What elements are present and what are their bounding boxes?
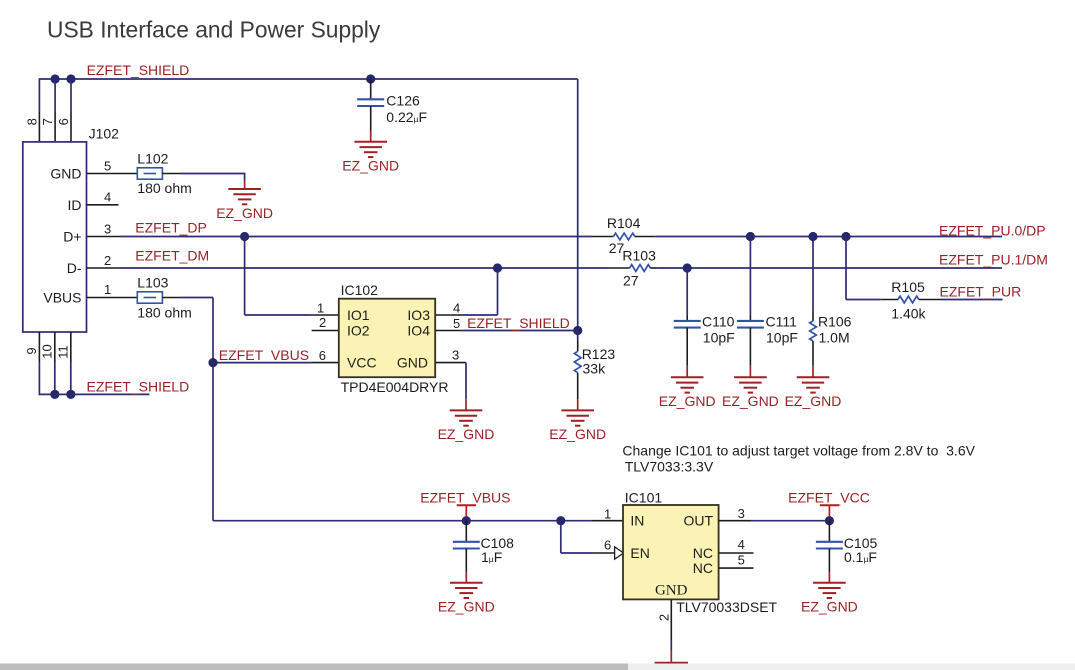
capacitor C108 [453, 521, 480, 549]
svg-text:EZ_GND: EZ_GND [342, 158, 399, 174]
svg-text:EZ_GND: EZ_GND [659, 393, 716, 409]
ground stem (IC102) [465, 399, 467, 410]
svg-text:C111: C111 [766, 314, 798, 330]
pin 5 stub (IC102 IO4) [435, 330, 462, 332]
svg-text:IN: IN [630, 513, 644, 529]
wire C110 down [686, 268, 688, 314]
ground EZ_GND (C110) [659, 377, 716, 409]
wire VBUS to vertical [162, 297, 180, 299]
svg-text:ID: ID [68, 197, 82, 213]
junction IO3 on D- [493, 263, 502, 272]
svg-text:3: 3 [738, 506, 745, 521]
pin 5 stub (J102 GND) [87, 173, 138, 175]
svg-text:IO1: IO1 [347, 307, 370, 323]
pin 4 stub (IC101 NC) [719, 552, 754, 554]
inductor L103 [137, 292, 162, 303]
connector J102 body [23, 142, 87, 332]
wire EZFET_VBUS vertical [212, 298, 214, 521]
junction C111 on D+ [746, 232, 755, 241]
wire R106 down [812, 237, 814, 311]
junction C108 / power port [462, 516, 471, 525]
svg-text:EZFET_SHIELD: EZFET_SHIELD [467, 315, 570, 331]
junction R106 on D+ [808, 232, 817, 241]
inductor L102 [137, 168, 162, 179]
ground EZ_GND (R106) [785, 377, 842, 409]
ground stem (C111) [749, 366, 751, 378]
svg-text:TLV70033DSET: TLV70033DSET [676, 599, 777, 615]
power port EZFET_VCC [788, 490, 870, 517]
svg-text:10pF: 10pF [766, 330, 798, 346]
svg-text:33k: 33k [583, 361, 607, 377]
svg-text:Change IC101 to adjust target: Change IC101 to adjust target voltage fr… [622, 443, 975, 459]
ground stem (R106) [812, 366, 814, 378]
svg-text:10pF: 10pF [703, 330, 735, 346]
wire IO4 to shield vertical [462, 330, 577, 332]
capacitor C111 [737, 314, 764, 366]
svg-text:6: 6 [56, 118, 71, 125]
svg-text:TLV7033:3.3V: TLV7033:3.3V [625, 459, 714, 475]
pin 2 stub (J102 D-) [87, 267, 121, 269]
wire EZFET_VBUS to IC102 pin 6 [213, 362, 312, 364]
svg-text:0.1µF: 0.1µF [844, 549, 877, 565]
svg-text:EZ_GND: EZ_GND [549, 426, 606, 442]
svg-text:EZFET_SHIELD: EZFET_SHIELD [87, 378, 190, 394]
svg-text:D-: D- [67, 260, 82, 276]
svg-text:6: 6 [604, 538, 611, 553]
ground stem (C126) [370, 131, 372, 142]
svg-text:2: 2 [657, 614, 672, 621]
wire EN branch [560, 521, 562, 553]
svg-text:6: 6 [319, 348, 326, 363]
wire J102 pin 11 vertical [70, 332, 72, 362]
svg-text:VCC: VCC [347, 355, 377, 371]
power port EZFET_VBUS [420, 490, 510, 517]
ground EZ_GND (C126) [342, 142, 399, 174]
wire J102 pin 7 vertical [54, 79, 56, 112]
svg-text:7: 7 [40, 118, 55, 125]
svg-text:1.40k: 1.40k [891, 305, 926, 321]
junction D+ to IC102 [240, 232, 249, 241]
wire D+ branch down to IC102 pin 1 [244, 237, 246, 316]
resistor R106 [810, 321, 817, 366]
page-edge gray bar left [0, 664, 628, 670]
junction C126 on shield wire [366, 74, 375, 83]
pin 5 stub (IC101 NC) [719, 567, 754, 569]
pin 1 stub (J102 VBUS) [87, 297, 138, 299]
wire EZFET_PUR [941, 299, 1003, 301]
junction EZFET_VBUS to IC102 VCC [208, 358, 217, 367]
svg-text:8: 8 [24, 118, 39, 125]
ground stem (R123) [577, 399, 579, 410]
svg-text:C126: C126 [386, 93, 420, 109]
junction C105 / power port VCC [825, 516, 834, 525]
svg-text:R103: R103 [622, 248, 656, 264]
svg-text:180 ohm: 180 ohm [137, 180, 191, 196]
junction at pin 11 [66, 390, 75, 399]
ground EZ_GND (R123) [549, 410, 606, 442]
wire L102 to ground [162, 173, 180, 175]
svg-text:R105: R105 [891, 279, 925, 295]
ground EZ_GND (C108) [438, 583, 495, 615]
wire J102 pin 10 vertical [54, 332, 56, 362]
svg-text:EZFET_PU.0/DP: EZFET_PU.0/DP [939, 222, 1046, 238]
ground stem (C108) [465, 572, 467, 583]
svg-text:IC102: IC102 [341, 282, 379, 298]
pin 3 stub (IC101 OUT) [719, 520, 751, 522]
svg-text:5: 5 [104, 159, 111, 174]
svg-text:EZ_GND: EZ_GND [801, 599, 858, 615]
pin 6 stub + enable triangle (IC101 EN) [594, 547, 624, 559]
pin 4 stub (J102 ID, unconnected) [87, 204, 119, 206]
svg-text:NC: NC [693, 560, 713, 576]
svg-text:EZ_GND: EZ_GND [722, 393, 779, 409]
svg-text:TPD4E004DRYR: TPD4E004DRYR [341, 379, 449, 395]
ground EZ_GND (C105) [801, 583, 858, 615]
svg-text:NC: NC [693, 545, 713, 561]
svg-text:USB Interface and Power Supply: USB Interface and Power Supply [47, 17, 381, 43]
wire shield to R123 [577, 331, 579, 341]
svg-text:EZFET_PU.1/DM: EZFET_PU.1/DM [939, 252, 1048, 268]
svg-text:L103: L103 [137, 275, 168, 291]
resistor R104 [593, 233, 656, 240]
wire C111 down (crosses D-) [749, 237, 751, 315]
ground stem (IC101 pin 2) [670, 651, 672, 663]
svg-text:2: 2 [319, 315, 326, 330]
svg-text:D+: D+ [63, 229, 81, 245]
ground stem (C105) [828, 572, 830, 583]
svg-text:EZFET_DP: EZFET_DP [135, 220, 207, 236]
svg-text:1: 1 [604, 507, 611, 522]
svg-text:4: 4 [738, 537, 745, 552]
junction on shield wire at pin 6 [66, 74, 75, 83]
junction on shield wire at pin 7 [51, 74, 60, 83]
wire EZFET_SHIELD bottom horizontal [39, 393, 149, 395]
wire EZFET_DP / EZFET_PU.0/DP horizontal [120, 236, 593, 238]
svg-text:5: 5 [453, 316, 460, 331]
svg-text:L102: L102 [137, 151, 168, 167]
svg-text:0.22µF: 0.22µF [386, 109, 427, 125]
svg-text:EZFET_VBUS: EZFET_VBUS [219, 347, 309, 363]
svg-text:EZ_GND: EZ_GND [785, 393, 842, 409]
svg-text:EZFET_PUR: EZFET_PUR [940, 283, 1022, 299]
svg-text:GND: GND [397, 355, 428, 371]
wire EZFET_SHIELD right vertical [577, 79, 579, 331]
junction shield at R123 [573, 326, 582, 335]
wire IC102 GND down [465, 363, 467, 400]
pin 1 stub (IC102 IO1) [312, 314, 339, 316]
wire J102 pin 8 vertical [38, 78, 40, 112]
resistor R105 [881, 296, 941, 303]
pin 2 wire (IC101 GND down) [670, 599, 672, 640]
svg-text:C110: C110 [702, 314, 735, 330]
svg-text:180 ohm: 180 ohm [137, 304, 191, 320]
pin 3 stub (J102 D+) [87, 236, 121, 238]
svg-text:4: 4 [104, 190, 111, 205]
svg-text:VBUS: VBUS [43, 290, 81, 306]
svg-text:R106: R106 [818, 314, 852, 330]
ground bar (IC101, clipped) [655, 662, 688, 664]
svg-text:EZFET_SHIELD: EZFET_SHIELD [87, 62, 190, 78]
svg-text:EZFET_VCC: EZFET_VCC [788, 490, 870, 506]
capacitor C105 [816, 521, 843, 572]
junction EN branch [556, 516, 565, 525]
wire J102 pin 6 vertical [70, 79, 72, 112]
svg-text:IC101: IC101 [625, 489, 663, 505]
svg-text:EZFET_DM: EZFET_DM [135, 248, 209, 264]
ground EZ_GND (C111) [722, 377, 779, 409]
wire EZFET_DM / EZFET_PU.1/DM horizontal [120, 267, 608, 269]
ground EZ_GND (L102) [216, 189, 273, 221]
pin 6 stub (IC102 VCC) [312, 362, 339, 364]
svg-text:4: 4 [453, 300, 460, 315]
capacitor C126 [357, 79, 384, 131]
svg-text:1: 1 [104, 282, 111, 297]
svg-text:GND: GND [50, 166, 81, 182]
capacitor C110 [674, 314, 701, 366]
svg-text:R104: R104 [607, 215, 641, 231]
svg-text:27: 27 [623, 273, 639, 289]
wire EZFET_VBUS to IC101 IN [213, 520, 591, 522]
junction at pin 10 [50, 390, 59, 399]
pin 1 stub (IC101 IN) [591, 520, 623, 522]
wire R105 branch [845, 237, 847, 300]
svg-text:3: 3 [452, 348, 459, 363]
svg-text:IO4: IO4 [407, 323, 430, 339]
svg-text:EZ_GND: EZ_GND [216, 205, 273, 221]
svg-text:GND: GND [655, 582, 688, 598]
regulator IC101 body [623, 505, 719, 599]
junction R105 branch on D+ [841, 232, 850, 241]
pin 3 stub (IC102 GND) [435, 362, 466, 364]
svg-text:IO3: IO3 [407, 307, 430, 323]
svg-text:IO2: IO2 [347, 323, 370, 339]
ground EZ_GND (IC102) [438, 410, 495, 442]
svg-text:EZ_GND: EZ_GND [438, 426, 495, 442]
pin 4 stub (IC102 IO3) [435, 314, 462, 316]
svg-text:3: 3 [104, 221, 111, 236]
svg-text:OUT: OUT [683, 513, 713, 529]
page-edge gray bar right [628, 664, 1075, 670]
ground stem (L102) [244, 181, 246, 190]
svg-text:9: 9 [24, 347, 39, 354]
wire OUT to EZFET_VCC [751, 520, 829, 522]
svg-text:1: 1 [317, 301, 324, 316]
junction C110 on D- [683, 263, 692, 272]
op-amp/IC body IC102 [339, 299, 435, 378]
svg-text:EZFET_VBUS: EZFET_VBUS [420, 490, 510, 506]
resistor R123 [574, 351, 581, 399]
svg-text:10: 10 [40, 344, 55, 358]
pin 2 stub (IC102 IO2, unconnected) [312, 330, 339, 332]
resistor R103 [608, 265, 657, 272]
wire IO3 up to D- line [462, 314, 497, 316]
svg-text:EN: EN [630, 545, 649, 561]
svg-text:1.0M: 1.0M [819, 330, 850, 346]
svg-text:EZ_GND: EZ_GND [438, 599, 495, 615]
wire J102 pin 9 vertical [38, 332, 40, 362]
wire EZFET_SHIELD top horizontal [39, 78, 577, 80]
svg-text:2: 2 [104, 253, 111, 268]
svg-text:J102: J102 [89, 126, 120, 142]
ground stem (C110) [686, 366, 688, 378]
svg-text:11: 11 [56, 345, 71, 359]
svg-text:5: 5 [738, 553, 745, 568]
